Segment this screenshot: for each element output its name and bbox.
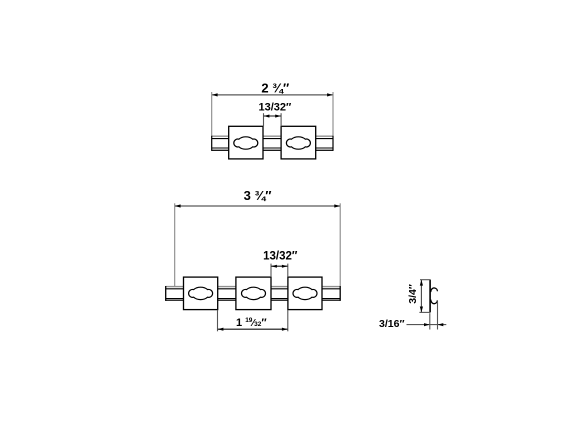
mounting hole in block A (middle figure) [189,287,213,299]
fixture block C (middle figure) [288,277,322,310]
mounting hole in block B (top figure) [286,137,310,149]
rail back plate (side view) [429,280,431,313]
svg-text:3/4″: 3/4″ [407,284,419,304]
bottom clip hook (side view) [431,300,438,304]
fixture block B (top figure) [281,126,316,159]
fixture block A (middle figure) [184,277,218,310]
rail (top figure) [212,136,333,151]
mounting hole in block C (middle figure) [293,287,317,299]
dimension 3/16 (side view) [379,302,446,330]
dimension 3 3/4 (middle figure) [175,188,341,286]
top clip hook (side view) [431,288,438,292]
dimension 13/32 (top figure) [259,102,293,127]
rail (middle figure) [166,286,341,301]
dimension 3/4 (side view) [407,280,430,313]
svg-text:3/16″: 3/16″ [379,318,404,330]
fixture block B (middle figure) [236,277,271,310]
dimension 2 3/4 (top figure) [212,81,333,136]
svg-text:13/32″: 13/32″ [259,102,293,114]
dimension 13/32 (middle figure) [263,250,298,277]
svg-text:13/32″: 13/32″ [263,250,298,262]
dimension 1 19/32 (middle figure) [218,310,288,332]
svg-text:2 ¾″: 2 ¾″ [261,81,289,96]
fixture block A (top figure) [229,126,263,159]
mounting hole in block A (top figure) [234,137,258,149]
svg-text:3 ¾″: 3 ¾″ [244,188,272,203]
mounting hole in block B (middle figure) [242,287,266,299]
svg-text:1 19⁄32″: 1 19⁄32″ [236,317,267,329]
